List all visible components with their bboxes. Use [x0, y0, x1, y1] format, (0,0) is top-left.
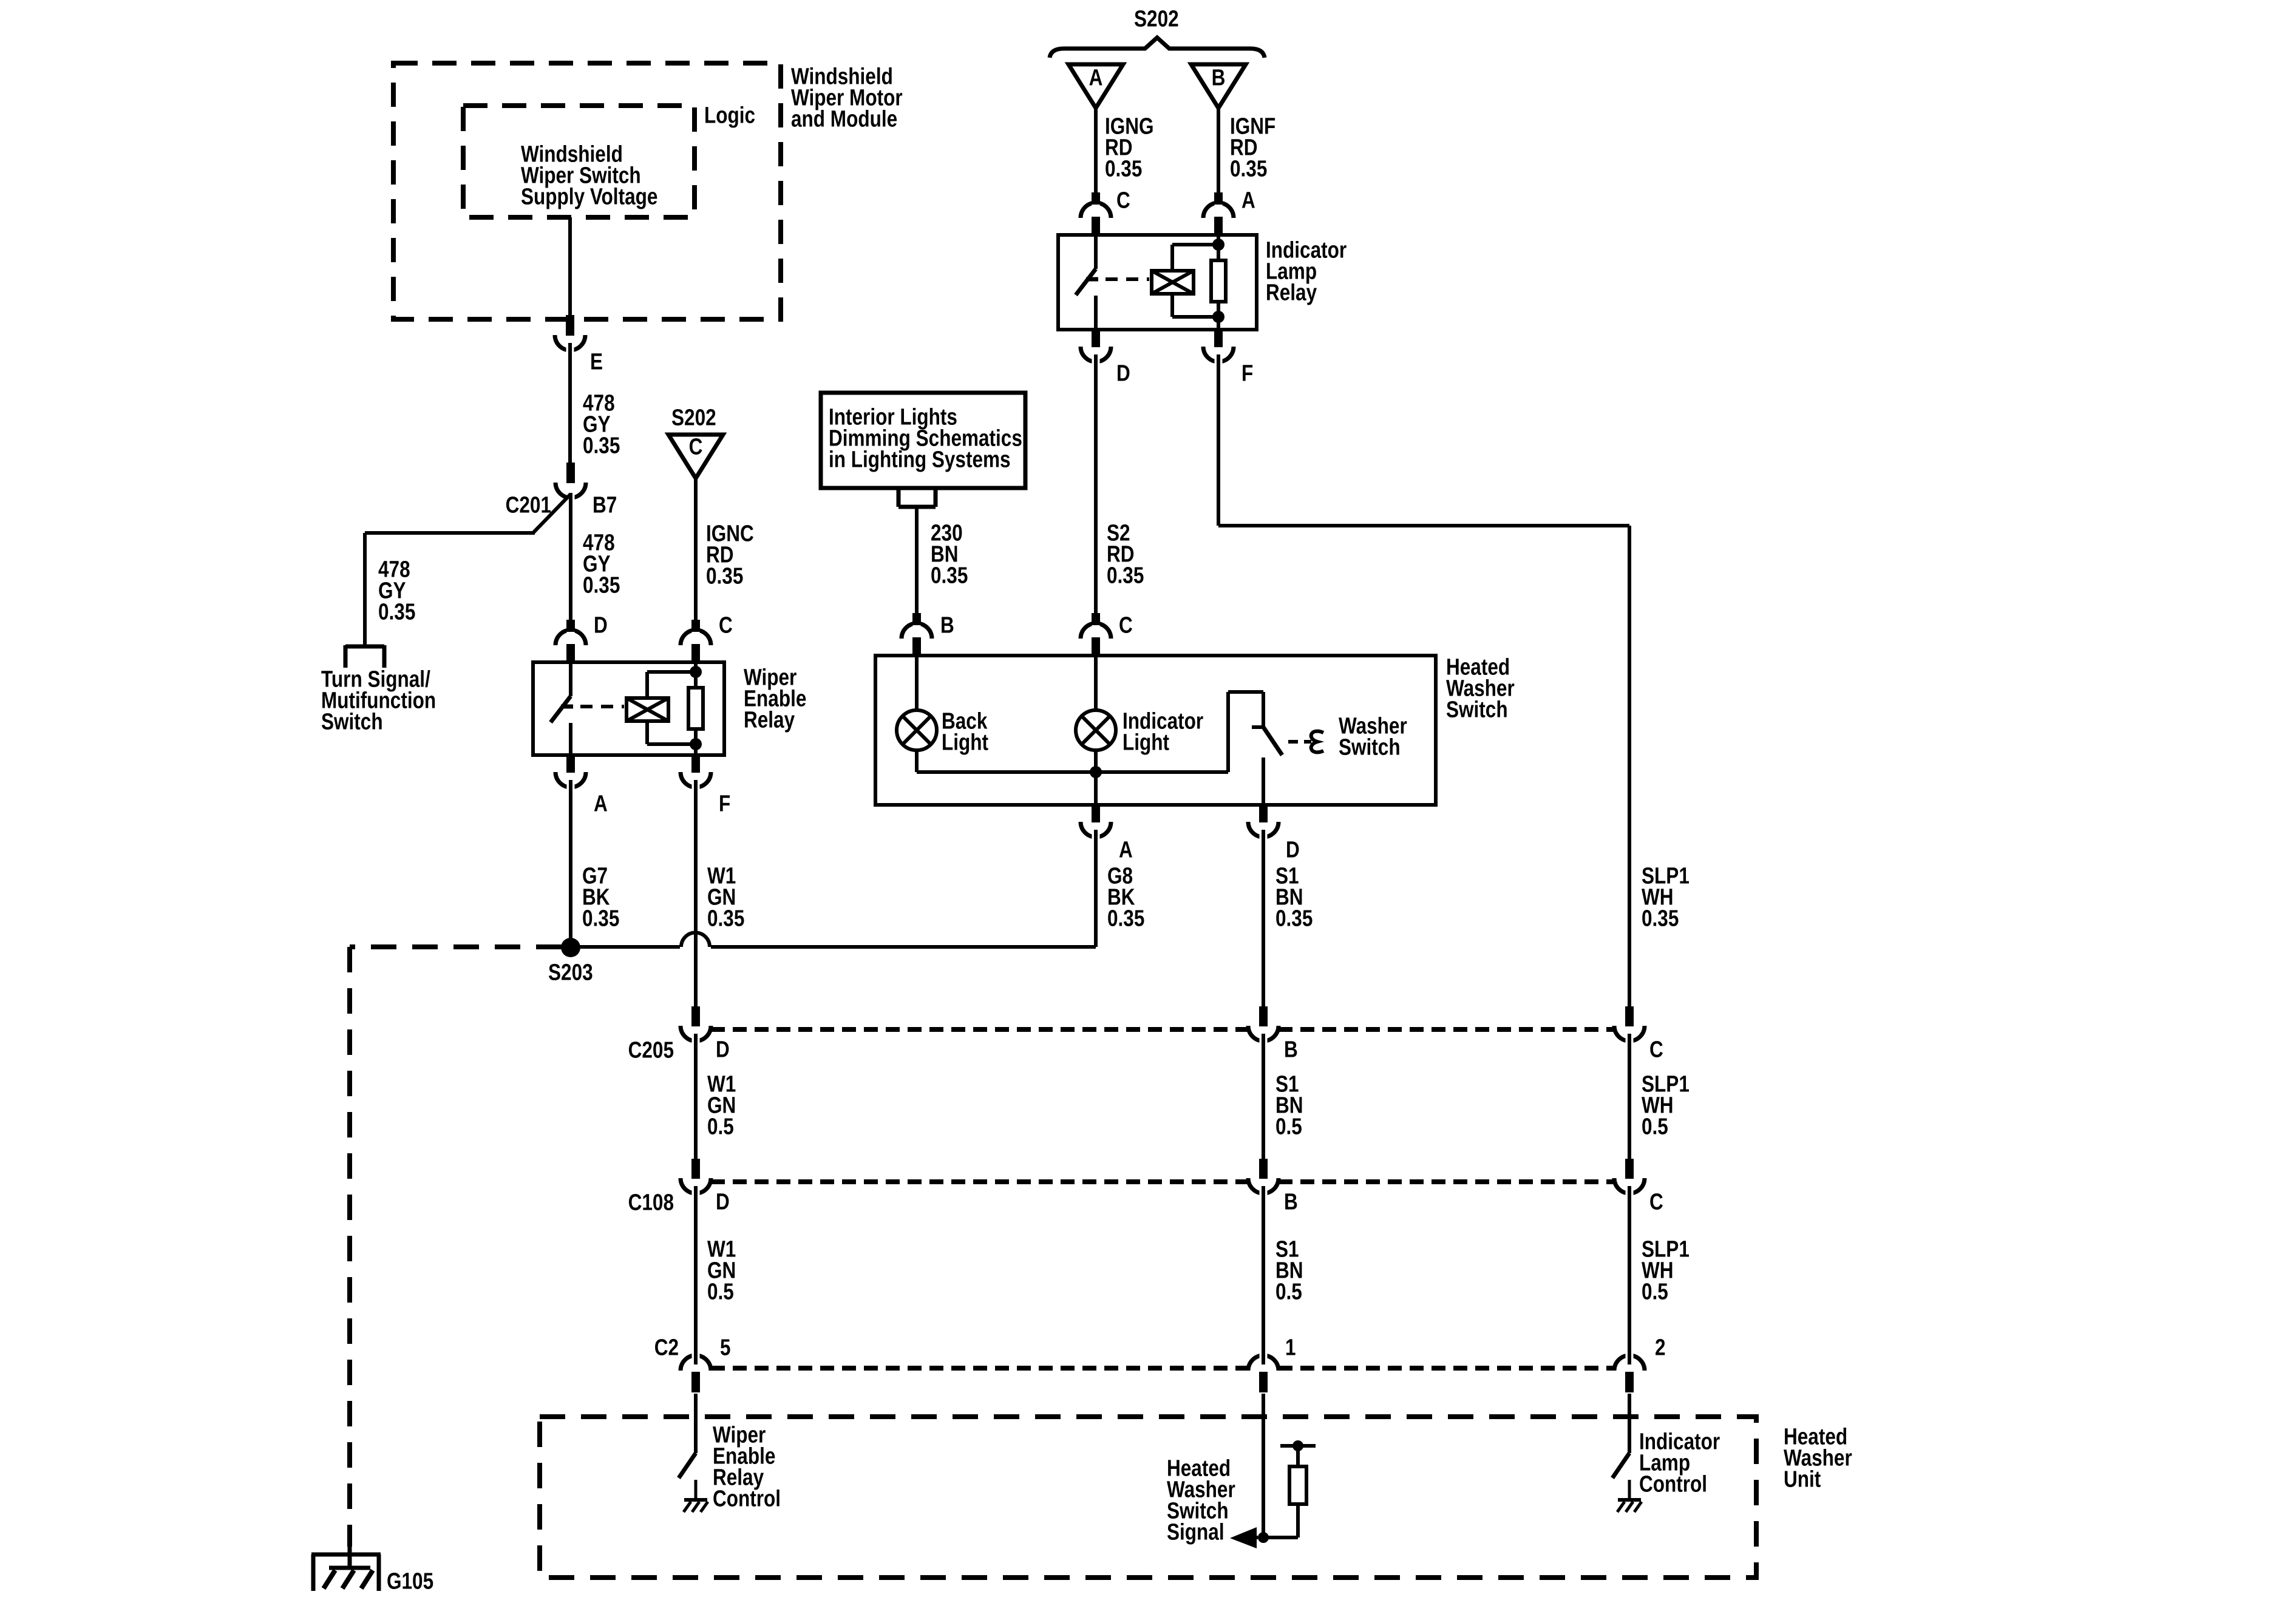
wire back light to rail	[915, 750, 919, 772]
label Windshield Wiper Switch Supply Voltage	[521, 141, 657, 209]
label pin C	[719, 612, 733, 638]
wire W1 into heated washer unit	[694, 1394, 698, 1453]
svg-text:5: 5	[720, 1335, 731, 1360]
svg-text:Light: Light	[942, 730, 988, 755]
wire 230 BN	[915, 507, 919, 614]
label terminal 2	[1655, 1335, 1666, 1360]
svg-text:B: B	[1284, 1189, 1298, 1215]
svg-text:C: C	[1649, 1189, 1663, 1215]
dotted connector line C2	[711, 1366, 1614, 1371]
svg-text:0.35: 0.35	[931, 563, 968, 588]
label pin D	[1116, 361, 1130, 386]
label terminal D of C108	[716, 1189, 730, 1215]
wire G7 BK	[569, 788, 572, 940]
wire G8 BK	[1094, 830, 1098, 947]
label terminal 1	[1285, 1335, 1296, 1360]
label Back Light	[942, 708, 988, 755]
svg-text:C2: C2	[654, 1335, 679, 1360]
svg-text:Unit: Unit	[1784, 1466, 1821, 1492]
connector pin D of heated washer switch	[1248, 804, 1279, 842]
svg-text:Control: Control	[713, 1486, 781, 1511]
connector pin A of heated washer switch	[1081, 804, 1111, 842]
label pin E	[590, 349, 603, 375]
junction S203	[561, 938, 580, 957]
svg-text:0.5: 0.5	[1642, 1114, 1668, 1139]
label pin D	[1286, 837, 1300, 863]
label S1 BN 0.5 lower	[1275, 1236, 1303, 1304]
svg-text:0.35: 0.35	[707, 906, 744, 931]
svg-text:C: C	[719, 612, 733, 638]
svg-text:D: D	[716, 1189, 730, 1215]
splice triangle S202-A	[1068, 64, 1123, 108]
label W1 GN 0.5 upper	[707, 1071, 736, 1139]
Windshield Wiper Motor and Module box (dashed)	[393, 63, 781, 319]
label W1 GN 0.35	[707, 863, 744, 931]
connector C2 terminal 1	[1248, 1349, 1279, 1392]
label pin A	[594, 791, 608, 816]
label pin F	[719, 791, 730, 816]
ground G105	[311, 1554, 381, 1591]
label S203	[548, 960, 593, 985]
svg-text:C108: C108	[628, 1190, 674, 1215]
svg-text:0.35: 0.35	[582, 906, 619, 931]
svg-text:C201: C201	[506, 492, 551, 518]
wire SLP1 WH lower	[1628, 1196, 1631, 1352]
svg-text:0.35: 0.35	[1107, 563, 1144, 588]
svg-text:Signal: Signal	[1167, 1519, 1224, 1545]
connector pin A of indicator lamp relay	[1203, 192, 1234, 236]
connector pin A of wiper enable relay	[555, 754, 586, 793]
indicator lamp relay internals (switch, coil, resistor)	[1076, 235, 1226, 330]
svg-text:A: A	[1119, 837, 1133, 863]
svg-text:0.5: 0.5	[707, 1114, 734, 1139]
svg-text:Supply Voltage: Supply Voltage	[521, 184, 657, 209]
label terminal B of C205	[1284, 1037, 1298, 1062]
label S2 RD 0.35	[1107, 520, 1144, 588]
connector C108 terminal C (SLP1)	[1614, 1159, 1645, 1199]
off-page connector Turn Signal/Multifunction Switch	[345, 645, 384, 668]
wire to back light lamp	[915, 656, 919, 710]
dotted connector line C108	[711, 1179, 1614, 1184]
connector pin D of wiper enable relay	[555, 620, 586, 663]
label terminal C of C205	[1649, 1037, 1663, 1062]
label terminal 5	[720, 1335, 731, 1360]
ground indicator lamp control	[1617, 1480, 1642, 1512]
wire S1 BN upper	[1262, 830, 1265, 1010]
Interior Lights reference box	[821, 393, 1025, 488]
svg-text:B: B	[1284, 1037, 1298, 1062]
svg-text:B7: B7	[593, 492, 617, 518]
label Indicator Light	[1123, 708, 1204, 755]
connector pin C of wiper enable relay	[681, 620, 711, 663]
svg-text:0.35: 0.35	[1642, 906, 1679, 931]
label SLP1 WH 0.5 lower	[1642, 1236, 1690, 1304]
label IGNC RD 0.35	[706, 521, 754, 589]
wire S1 BN lower	[1262, 1196, 1265, 1352]
wire S203 to G8 with crossover hop	[571, 933, 1096, 947]
dashed wire S203 to ground G105	[350, 947, 562, 1569]
label Heated Washer Unit	[1784, 1424, 1852, 1492]
label pin C	[1116, 188, 1130, 213]
wire S1 BN middle	[1262, 1044, 1265, 1161]
label Turn Signal/Mutifunction Switch	[321, 666, 436, 734]
Heated Washer Unit box (dashed)	[540, 1417, 1756, 1578]
connector C108 terminal D (W1)	[681, 1159, 711, 1199]
label S1 BN 0.35	[1275, 863, 1313, 931]
ground wiper enable relay control	[684, 1480, 708, 1512]
label pin D	[594, 612, 608, 638]
svg-text:C205: C205	[628, 1037, 674, 1063]
svg-text:0.35: 0.35	[706, 563, 743, 589]
svg-text:Light: Light	[1123, 730, 1169, 755]
label SLP1 WH 0.35	[1642, 863, 1690, 931]
svg-text:1: 1	[1285, 1335, 1296, 1360]
wire SLP1 from relay pin F to right column	[1218, 363, 1629, 1010]
switch Washer Switch	[1252, 692, 1323, 805]
svg-text:0.5: 0.5	[1642, 1279, 1668, 1304]
svg-text:G105: G105	[387, 1568, 433, 1594]
svg-text:0.35: 0.35	[583, 433, 620, 458]
connector pin E	[555, 315, 585, 356]
svg-text:Switch: Switch	[321, 709, 383, 734]
label IGNF RD 0.35	[1230, 114, 1275, 181]
connector pin F of wiper enable relay	[681, 754, 711, 793]
wire SLP1 WH middle	[1628, 1044, 1631, 1161]
svg-text:S202: S202	[1134, 6, 1179, 32]
label terminal B of C108	[1284, 1189, 1298, 1215]
connector C201	[555, 463, 586, 502]
svg-text:0.35: 0.35	[1230, 156, 1267, 181]
svg-text:A: A	[1089, 65, 1103, 90]
splice triangle S202-C	[668, 434, 723, 478]
Logic box (dashed) Windshield Wiper Switch Supply Voltage	[463, 106, 695, 217]
label pin B	[940, 612, 954, 638]
wire W1 GN middle	[694, 1044, 698, 1161]
label Wiper Enable Relay	[744, 665, 806, 733]
label Washer Switch	[1339, 713, 1407, 760]
svg-text:B: B	[940, 612, 954, 638]
svg-text:D: D	[594, 612, 608, 638]
connector C205 terminal B (S1)	[1248, 1006, 1279, 1046]
label pin A	[1241, 188, 1255, 213]
svg-text:Logic: Logic	[704, 103, 755, 128]
connector C2 terminal 2	[1614, 1349, 1645, 1392]
wire to indicator light lamp	[1094, 656, 1098, 710]
wiper enable relay internals (switch, coil, resistor)	[551, 662, 703, 755]
svg-text:D: D	[716, 1037, 730, 1062]
svg-text:in Lighting Systems: in Lighting Systems	[829, 447, 1011, 472]
wire W1 GN upper	[694, 788, 698, 1010]
box Heated Washer Switch	[875, 656, 1436, 805]
label terminal C of C108	[1649, 1189, 1663, 1215]
label W1 GN 0.5 lower	[707, 1236, 736, 1304]
dotted connector line C205	[711, 1027, 1614, 1032]
label S202 (splice C)	[671, 405, 716, 430]
svg-text:2: 2	[1655, 1335, 1666, 1360]
wire 478 GY lower segment	[569, 493, 572, 621]
connector pin F of indicator lamp relay	[1203, 329, 1234, 367]
svg-text:B: B	[1212, 65, 1226, 90]
svg-text:Switch: Switch	[1446, 697, 1508, 722]
svg-text:0.5: 0.5	[1275, 1279, 1302, 1304]
switch Indicator Lamp Control	[1612, 1453, 1629, 1478]
svg-text:A: A	[594, 791, 608, 816]
label S1 BN 0.5 upper	[1275, 1071, 1303, 1139]
label S202 (splice group)	[1134, 6, 1179, 32]
off-page connector interior lights	[898, 488, 936, 507]
label pin F	[1241, 361, 1253, 386]
label pin A	[1119, 837, 1133, 863]
resistor branch of heated washer switch signal	[1263, 1440, 1316, 1537]
svg-text:S203: S203	[548, 960, 593, 985]
wire indicator light to pin A	[1094, 750, 1098, 805]
connector pin C of heated washer switch	[1081, 613, 1111, 656]
label C205	[628, 1037, 674, 1063]
label SLP1 WH 0.5 upper	[1642, 1071, 1690, 1139]
label Indicator Lamp Relay	[1266, 237, 1347, 305]
connector C108 terminal B (S1)	[1248, 1159, 1279, 1199]
connector C205 terminal D (W1)	[681, 1006, 711, 1046]
svg-text:A: A	[1241, 188, 1255, 213]
wire W1 GN lower	[694, 1196, 698, 1352]
brace S202	[1050, 38, 1265, 58]
wire S1 into heated washer unit	[1262, 1394, 1265, 1537]
svg-text:D: D	[1116, 361, 1130, 386]
connector pin D of indicator lamp relay	[1081, 329, 1111, 367]
junction rail/indicator light	[1090, 766, 1102, 778]
svg-text:E: E	[590, 349, 603, 375]
svg-text:and Module: and Module	[791, 106, 897, 132]
svg-text:F: F	[719, 791, 730, 816]
svg-text:0.35: 0.35	[583, 572, 620, 598]
lamp Indicator Light	[1076, 710, 1116, 750]
wire branch to turn signal switch	[365, 494, 571, 648]
wire 478 GY upper segment	[568, 352, 572, 464]
splice triangle S202-B	[1191, 64, 1246, 108]
label IGNG RD 0.35	[1105, 114, 1154, 181]
svg-text:C: C	[1649, 1037, 1663, 1062]
label Logic	[704, 103, 755, 128]
label Interior Lights Dimming Schematics in Lighting Systems	[829, 404, 1022, 472]
label terminal B7	[593, 492, 617, 518]
label 478 GY 0.35 lower	[583, 530, 620, 598]
relay box Wiper Enable Relay	[533, 662, 724, 755]
svg-text:Relay: Relay	[1266, 280, 1317, 305]
svg-text:0.35: 0.35	[1107, 906, 1144, 931]
label Windshield Wiper Motor and Module	[791, 64, 903, 132]
junction heated washer switch signal	[1258, 1532, 1269, 1543]
svg-text:Switch: Switch	[1339, 734, 1401, 760]
svg-text:C: C	[1116, 188, 1130, 213]
svg-text:Control: Control	[1639, 1471, 1707, 1497]
label terminal D of C205	[716, 1037, 730, 1062]
svg-text:0.35: 0.35	[1105, 156, 1142, 181]
label C201	[506, 492, 551, 518]
connector C2 terminal 5	[681, 1349, 711, 1392]
arrow Heated Washer Switch Signal	[1230, 1527, 1258, 1548]
connector C205 terminal C (SLP1)	[1614, 1006, 1645, 1046]
label pin C	[1119, 612, 1133, 638]
label G105	[387, 1568, 433, 1594]
svg-text:C: C	[1119, 612, 1133, 638]
svg-text:0.5: 0.5	[707, 1279, 734, 1304]
label 478 GY 0.35 upper	[583, 390, 620, 458]
wire supply voltage output	[568, 217, 572, 318]
wire internal rail of heated washer switch	[917, 692, 1263, 772]
wire S2 RD upper	[1094, 363, 1098, 614]
svg-text:0.5: 0.5	[1275, 1114, 1302, 1139]
label Heated Washer Switch Signal	[1167, 1456, 1235, 1545]
svg-text:C: C	[689, 434, 703, 459]
svg-text:D: D	[1286, 837, 1300, 863]
label Heated Washer Switch	[1446, 654, 1515, 722]
label C108	[628, 1190, 674, 1215]
label Wiper Enable Relay Control	[713, 1422, 781, 1511]
svg-text:0.35: 0.35	[1275, 906, 1313, 931]
wire IGNF RD	[1217, 108, 1220, 194]
label 230 BN 0.35	[931, 520, 968, 588]
label G7 BK 0.35	[582, 863, 619, 931]
wire SLP1 into heated washer unit	[1628, 1394, 1631, 1453]
label 478 GY 0.35 branch	[378, 557, 415, 625]
wire IGNG RD	[1094, 108, 1098, 194]
svg-text:Relay: Relay	[744, 707, 795, 733]
label C2	[654, 1335, 679, 1360]
svg-text:0.35: 0.35	[378, 599, 415, 625]
svg-text:F: F	[1241, 361, 1253, 386]
lamp Back Light	[897, 710, 937, 750]
connector pin C of indicator lamp relay	[1081, 192, 1111, 236]
relay box Indicator Lamp Relay	[1058, 235, 1257, 330]
label G8 BK 0.35	[1107, 863, 1144, 931]
wire IGNC RD	[694, 478, 698, 621]
connector pin B of heated washer switch	[902, 613, 932, 656]
switch Wiper Enable Relay Control	[679, 1453, 696, 1478]
svg-text:S202: S202	[671, 405, 716, 430]
label Indicator Lamp Control	[1639, 1429, 1720, 1497]
